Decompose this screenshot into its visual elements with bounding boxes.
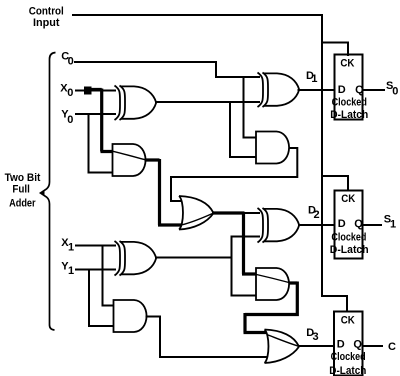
- svg-text:0: 0: [392, 85, 398, 97]
- svg-text:Q: Q: [353, 339, 362, 351]
- svg-text:Q: Q: [355, 84, 364, 96]
- wire latch3 Q to C: [362, 345, 383, 347]
- wire C0 branch to AND2 upper input: [244, 77, 257, 138]
- svg-text:C: C: [388, 341, 396, 353]
- wire AND3 output to OR2 lower input: [146, 317, 268, 358]
- node X0 junction square: [84, 87, 92, 95]
- wire D1 net XOR2 output to latch1 D: [298, 89, 335, 91]
- svg-text:D-Latch: D-Latch: [329, 365, 366, 376]
- wire Y0 branch to AND1 lower input: [89, 114, 114, 173]
- svg-text:0: 0: [67, 87, 73, 99]
- and-gate AND1 (X0 and Y0): [113, 144, 146, 176]
- svg-text:3: 3: [313, 331, 319, 343]
- wire latch1 Q to S0: [363, 89, 386, 91]
- brace two-bit-full-adder: [41, 53, 56, 331]
- and-gate AND3 (X1 and Y1): [114, 300, 147, 332]
- wire X0 to XOR1 upper input: [75, 90, 116, 92]
- wire XOR3 output: [155, 257, 232, 259]
- svg-text:D: D: [338, 218, 346, 230]
- svg-text:Two Bit: Two Bit: [5, 172, 41, 184]
- svg-text:1: 1: [390, 219, 396, 231]
- wire C1 thick branch to AND4 upper input: [242, 213, 257, 274]
- latch U1 clocked D-latch box: [335, 55, 363, 120]
- svg-text:D: D: [338, 84, 346, 96]
- xor-gate XOR4 ((X1 xor Y1) xor C1) = D2: [258, 208, 300, 243]
- latch U2 clocked D-latch box: [335, 191, 363, 259]
- and-gate AND4 ((X1 xor Y1) and C1): [256, 268, 289, 300]
- wire Y1 to XOR3 lower input: [75, 269, 116, 271]
- wire control input horizontal: [72, 14, 323, 16]
- svg-text:D: D: [337, 339, 345, 351]
- svg-text:0: 0: [67, 114, 73, 126]
- wire XOR1 branch to AND2 lower input: [230, 102, 257, 157]
- svg-text:D-Latch: D-Latch: [330, 109, 368, 121]
- wire XOR1 output to XOR2 lower input: [155, 101, 260, 103]
- xor-gate XOR1 (X0 xor Y0): [115, 86, 157, 121]
- svg-text:Q: Q: [354, 218, 363, 230]
- svg-text:1: 1: [311, 73, 317, 85]
- wire AND2 output loop to OR1 upper input: [171, 148, 297, 201]
- svg-text:D-Latch: D-Latch: [330, 244, 369, 256]
- and-gate AND2 (C0 and (X0 xor Y0)): [256, 132, 289, 164]
- xor-gate XOR3 (X1 xor Y1): [115, 241, 157, 276]
- svg-text:Input: Input: [33, 17, 60, 29]
- wire latch2 Q to S1: [363, 224, 383, 226]
- wire AND1 output thick to OR1 lower input: [145, 159, 183, 225]
- svg-text:Clocked: Clocked: [331, 351, 366, 363]
- wire XOR3 branch down to AND4 lower input: [232, 257, 257, 296]
- wire OR1 output thick carry C1: [212, 211, 245, 214]
- wire control vertical bus: [321, 14, 323, 297]
- wire D3 net OR2 output to latch3 D: [298, 345, 335, 347]
- or-gate OR1 (carry C1): [179, 196, 213, 230]
- svg-text:Clocked: Clocked: [331, 232, 366, 244]
- wire XOR3 branch up to XOR4 lower input: [232, 237, 261, 259]
- svg-text:Adder: Adder: [9, 198, 36, 210]
- svg-text:CK: CK: [341, 193, 355, 205]
- svg-text:0: 0: [68, 56, 74, 68]
- svg-text:2: 2: [314, 209, 320, 221]
- wire X0 thick branch to AND1 upper input: [90, 89, 113, 152]
- svg-text:1: 1: [68, 242, 74, 254]
- wire D2 net XOR4 output to latch2 D: [298, 224, 335, 226]
- wire CK branch latch2: [322, 176, 348, 191]
- svg-text:CK: CK: [340, 58, 354, 70]
- or-gate OR2 (carry out) = D3: [265, 330, 299, 364]
- wire Y0 to XOR1 lower input: [75, 113, 116, 115]
- svg-text:1: 1: [68, 265, 74, 277]
- svg-text:Control: Control: [29, 6, 64, 18]
- xor-gate XOR2 (C0 xor (X0 xor Y0)) = D1: [258, 73, 300, 108]
- brace point tip: [40, 191, 45, 195]
- wire Y1 branch to AND3 lower input: [89, 270, 114, 327]
- wire CK branch latch1: [322, 43, 348, 57]
- wire C0 to XOR2 upper input: [74, 62, 260, 77]
- wire CK branch latch3: [322, 296, 347, 312]
- wire X1 branch to AND3 upper input: [103, 246, 115, 306]
- svg-text:Full: Full: [12, 183, 30, 195]
- wire AND4 output thick loop to OR2 upper input: [244, 282, 299, 333]
- svg-text:Clocked: Clocked: [332, 97, 367, 109]
- wire C1 to XOR4 upper input: [243, 212, 260, 214]
- wire X1 to XOR3 upper input: [75, 245, 116, 247]
- svg-text:CK: CK: [341, 314, 355, 326]
- latch U3 clocked D-latch box: [334, 312, 363, 376]
